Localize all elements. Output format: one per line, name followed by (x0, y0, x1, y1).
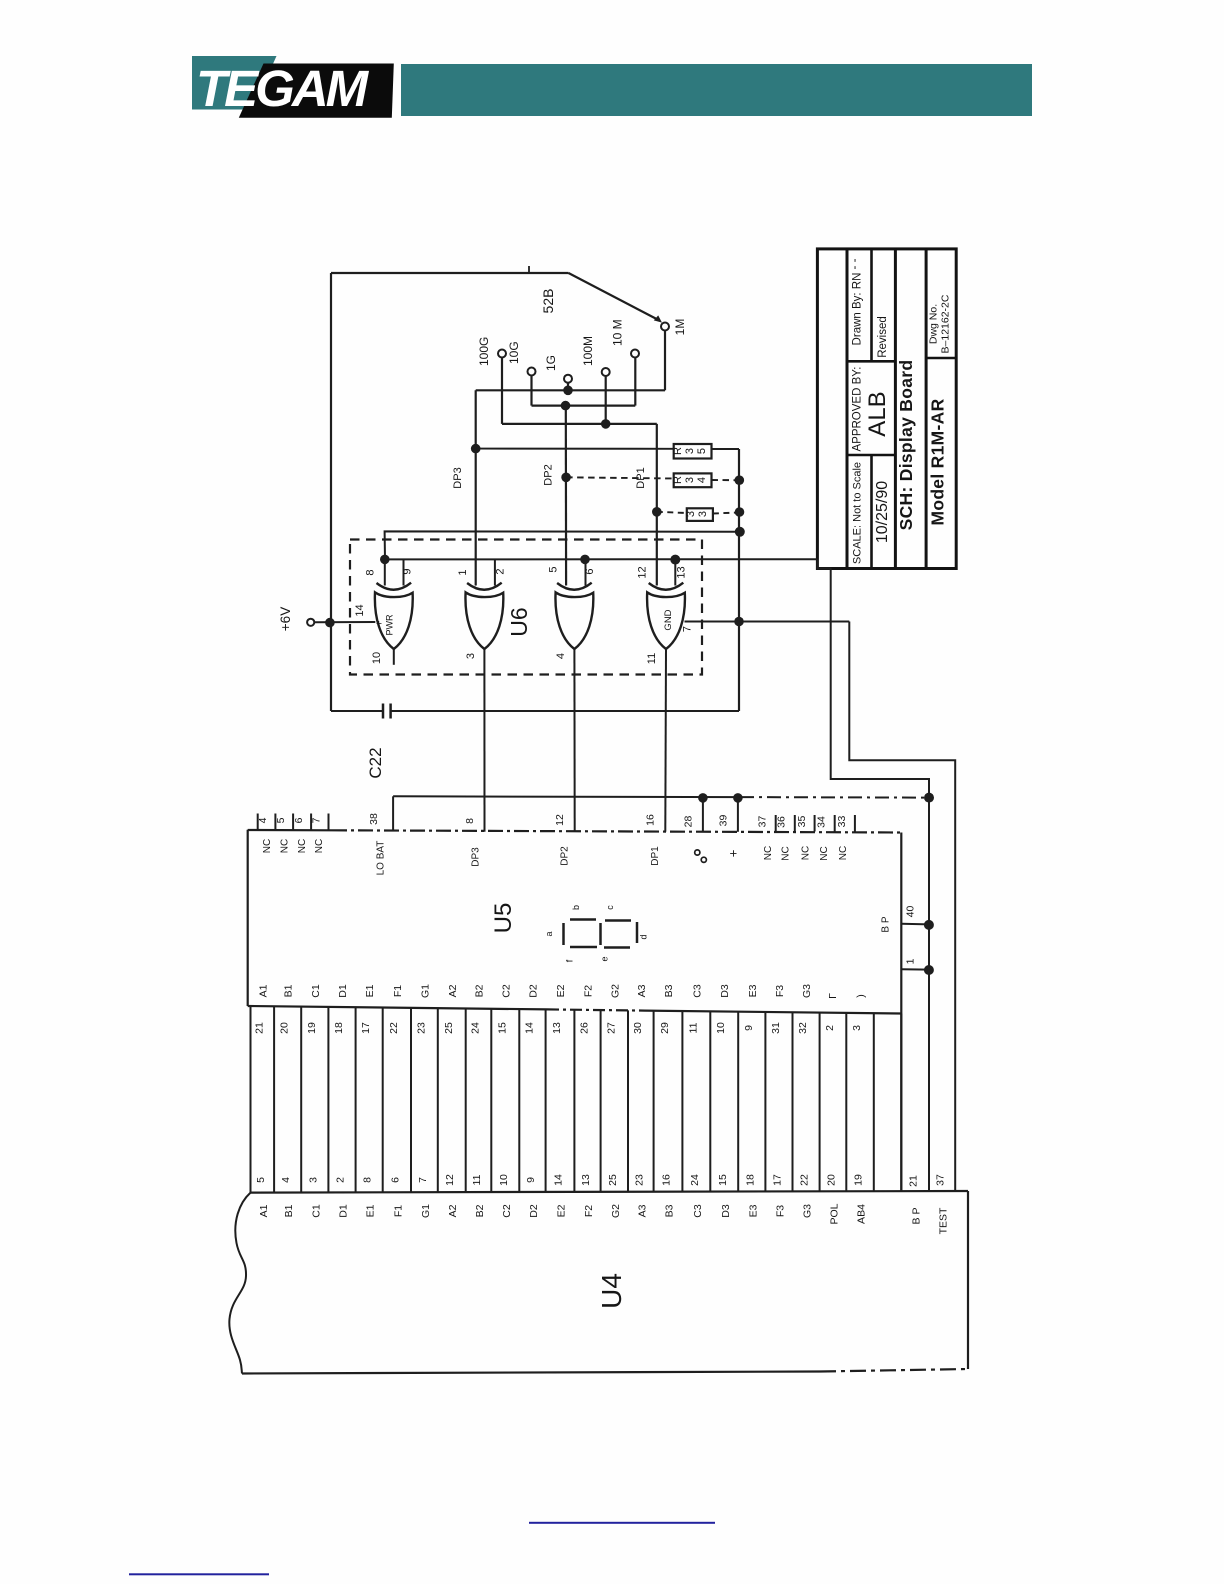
svg-text:A3: A3 (636, 984, 648, 997)
svg-text:3: 3 (684, 477, 696, 483)
U5 pin 1 BP stub (901, 958, 934, 975)
svg-text:4: 4 (257, 817, 269, 823)
svg-text:20: 20 (279, 1022, 291, 1034)
svg-text:DP3: DP3 (471, 847, 482, 867)
wire: top horizontal to switch (331, 266, 569, 273)
svg-text:16: 16 (661, 1174, 673, 1186)
wire: +6V to rail and pin 14 (314, 604, 375, 627)
svg-text:8: 8 (362, 1177, 374, 1183)
svg-text:ALB: ALB (864, 391, 891, 436)
svg-text:C3: C3 (692, 1204, 704, 1218)
svg-text:D2: D2 (528, 1204, 540, 1218)
svg-text:26: 26 (579, 1022, 591, 1034)
node DP2 on net Q (561, 401, 571, 411)
svg-text:B3: B3 (663, 984, 675, 997)
wire: GND pin7 run to U4 TEST (849, 622, 955, 1193)
IC U5 outline (248, 830, 902, 1192)
svg-text:AB4: AB4 (856, 1204, 868, 1224)
svg-text:A1: A1 (258, 1204, 270, 1217)
svg-text:GND: GND (663, 609, 674, 630)
svg-text:14: 14 (524, 1022, 536, 1034)
title text: Revised (877, 316, 889, 358)
svg-text:G2: G2 (609, 984, 621, 998)
U5 pin 12 DP2 (554, 814, 571, 866)
svg-text:F1: F1 (392, 1205, 404, 1217)
svg-text:12: 12 (444, 1174, 456, 1186)
wire: 1M drop to net P (664, 331, 666, 391)
wire: pin 8 input (365, 555, 390, 586)
wire: DP1 vertical (635, 424, 662, 586)
svg-text:38: 38 (368, 813, 380, 825)
U5 pin 38 LO BAT (368, 796, 393, 875)
svg-text:25: 25 (607, 1174, 619, 1186)
op-amp gate U6C (555, 583, 593, 649)
svg-text:E1: E1 (365, 1204, 377, 1217)
U4 BP/TEST channel walls (900, 1014, 902, 1193)
U4 torn left edge (229, 1193, 250, 1374)
svg-text:B1: B1 (283, 1204, 295, 1217)
svg-text:5: 5 (255, 1177, 267, 1183)
resistor R35 (476, 444, 739, 459)
wire: net P horizontal (1M,1G,DP3) (476, 389, 665, 391)
terminal 10M (611, 319, 640, 357)
svg-text:B P: B P (911, 1208, 923, 1225)
svg-text:SCALE: Not to Scale: SCALE: Not to Scale (852, 462, 864, 564)
svg-text:R: R (672, 476, 684, 484)
terminal 100M (581, 336, 610, 376)
svg-text:DP2: DP2 (560, 846, 571, 866)
svg-text:APPROVED BY:: APPROVED BY: (852, 366, 864, 451)
U4 side pin numbers (255, 1174, 865, 1186)
svg-text:9: 9 (402, 568, 414, 574)
wire: net R horizontal (100G,100M,DP1) (502, 423, 657, 425)
svg-text:25: 25 (443, 1022, 455, 1034)
wire: DP2 vertical (543, 406, 571, 586)
svg-text:LO BAT: LO BAT (376, 841, 387, 876)
svg-text:6: 6 (293, 817, 305, 823)
svg-text:F1: F1 (392, 985, 404, 997)
svg-text:17: 17 (360, 1022, 372, 1034)
op-amp gate U6B (465, 583, 503, 649)
svg-text:6: 6 (389, 1177, 401, 1183)
svg-text:35: 35 (796, 816, 808, 828)
svg-text:NC: NC (262, 839, 273, 853)
svg-text:E1: E1 (364, 984, 376, 997)
svg-text:Drawn By: RN: Drawn By: RN (852, 273, 864, 346)
U5 pin 16 DP1 (645, 814, 662, 866)
svg-text:10: 10 (715, 1022, 727, 1034)
U5 bottom side labels (257, 984, 813, 998)
U4 pin 21 BP (908, 1175, 923, 1224)
svg-text:24: 24 (689, 1174, 701, 1186)
svg-text:G1: G1 (419, 984, 431, 998)
svg-text:PWR: PWR (385, 614, 395, 635)
svg-text:G1: G1 (420, 1204, 432, 1218)
wire: pin 6 input (580, 555, 596, 586)
svg-text:3: 3 (465, 653, 477, 659)
svg-text:e: e (600, 956, 610, 961)
TEGAM logo teal parallelogram (192, 56, 277, 110)
svg-text:27: 27 (605, 1022, 617, 1034)
svg-text:37: 37 (757, 816, 769, 828)
IC U4 outline (242, 1191, 968, 1374)
wire: 10G drop (530, 376, 532, 406)
svg-text:B1: B1 (283, 984, 295, 997)
svg-text:D3: D3 (719, 984, 731, 998)
svg-text:3: 3 (697, 511, 709, 517)
wire: 1G drop (563, 383, 573, 395)
terminal 1G (544, 355, 572, 383)
label U4 (596, 1273, 627, 1309)
svg-text:100G: 100G (477, 337, 491, 366)
svg-text:100M: 100M (581, 336, 595, 366)
svg-text:B2: B2 (474, 1204, 486, 1217)
terminal 10G (507, 341, 536, 375)
svg-text:U4: U4 (596, 1273, 627, 1309)
wire: pin 7 GND output to right (682, 622, 850, 633)
svg-text:R: R (672, 447, 684, 455)
svg-text:19: 19 (853, 1174, 865, 1186)
svg-text:7: 7 (682, 626, 694, 632)
svg-text:Dwg No.: Dwg No. (928, 304, 940, 344)
wire: 100G drop (501, 358, 503, 424)
svg-text:28: 28 (683, 816, 695, 828)
svg-text:5: 5 (548, 566, 560, 572)
svg-text:TEST: TEST (938, 1207, 950, 1234)
op-amp gate U6D GND (647, 583, 685, 649)
svg-text:Γ: Γ (827, 993, 839, 999)
svg-text:1M: 1M (673, 319, 687, 336)
svg-text:11: 11 (687, 1022, 699, 1033)
svg-text:C3: C3 (691, 984, 703, 998)
svg-text:34: 34 (816, 816, 828, 828)
FOOTER (529, 1522, 715, 1524)
svg-text:4: 4 (555, 653, 567, 659)
svg-text:24: 24 (470, 1022, 482, 1034)
svg-text:5: 5 (275, 817, 287, 823)
wire: +6V left rail (330, 273, 332, 711)
svg-text:A2: A2 (447, 984, 459, 997)
svg-text:3: 3 (307, 1177, 319, 1183)
wire: DP3 vertical (452, 390, 481, 585)
U6 dashed boundary box (350, 540, 702, 675)
title text: Drawn By (849, 258, 864, 345)
svg-text:22: 22 (388, 1022, 400, 1034)
svg-text:- -: - - (849, 258, 861, 269)
svg-text:+: + (726, 850, 741, 858)
svg-text:20: 20 (826, 1174, 838, 1186)
svg-text:10: 10 (371, 652, 383, 664)
svg-text:A2: A2 (447, 1204, 459, 1217)
wire: pin 10 output stub (371, 649, 394, 665)
wire: pin 1 input (DP3) (457, 569, 476, 585)
svg-text:B2: B2 (474, 984, 486, 997)
svg-text:D1: D1 (337, 984, 349, 998)
svg-text:30: 30 (632, 1022, 644, 1034)
svg-text:C2: C2 (500, 984, 512, 998)
svg-text:E2: E2 (555, 984, 567, 997)
wire: pin 5 input (DP2) (548, 566, 567, 585)
wire: pin 3 output to U5 pin 8 (465, 649, 485, 832)
svg-text:DP3: DP3 (452, 467, 464, 488)
svg-text:F2: F2 (583, 985, 595, 997)
svg-text:NC: NC (763, 846, 774, 860)
switch 52B wiper diagonal with arrowhead (569, 273, 663, 323)
svg-text:NC: NC (280, 839, 291, 853)
svg-text:10: 10 (498, 1174, 510, 1186)
svg-text:18: 18 (333, 1022, 345, 1034)
svg-text:TEGAM: TEGAM (196, 60, 370, 117)
svg-text:): ) (855, 994, 867, 998)
svg-text:NC: NC (819, 846, 830, 860)
U5 side pin numbers (253, 1022, 863, 1034)
label U6 (506, 607, 532, 636)
terminal 100G (477, 337, 506, 366)
svg-text:2: 2 (495, 568, 507, 574)
svg-text:12: 12 (637, 566, 649, 578)
resistor 33 (657, 508, 740, 521)
svg-text:C1: C1 (310, 984, 322, 998)
svg-text:29: 29 (659, 1022, 671, 1034)
svg-text:7: 7 (311, 817, 323, 823)
svg-text:8: 8 (464, 818, 476, 824)
wire: pin 4 output to U5 pin 12 (555, 649, 575, 832)
svg-text:17: 17 (772, 1174, 784, 1186)
svg-text:c: c (605, 905, 615, 910)
svg-text:U6: U6 (506, 607, 532, 636)
title text: APPROVED BY ALB (852, 366, 892, 451)
svg-text:C1: C1 (310, 1204, 322, 1218)
svg-text:A1: A1 (257, 984, 269, 997)
svg-text:39: 39 (718, 815, 730, 827)
svg-text:5: 5 (696, 448, 708, 454)
svg-text:16: 16 (645, 814, 657, 826)
svg-text:11: 11 (471, 1174, 483, 1185)
title text: Dwg No (928, 294, 952, 353)
label BP inside U5 (881, 916, 892, 932)
U5 pins 4-7 NC stubs (258, 814, 329, 831)
svg-text:F2: F2 (583, 1205, 595, 1217)
svg-text:4: 4 (280, 1177, 292, 1183)
svg-text:1: 1 (457, 569, 469, 575)
TEGAM logo black parallelogram (239, 64, 394, 118)
svg-text:SCH: Display Board: SCH: Display Board (896, 360, 916, 531)
svg-text:D3: D3 (720, 1204, 732, 1218)
svg-text:6: 6 (584, 568, 596, 574)
svg-text:A3: A3 (636, 1204, 648, 1217)
wire: pin 12 input (DP1) (637, 566, 649, 578)
svg-text:DP1: DP1 (650, 846, 661, 866)
svg-text:13: 13 (551, 1022, 563, 1034)
svg-text:11: 11 (646, 653, 658, 664)
svg-text:15: 15 (717, 1174, 729, 1186)
terminal 1M (661, 319, 687, 336)
TEGAM logo text (196, 60, 370, 117)
svg-text:E3: E3 (747, 984, 759, 997)
wire: 100M drop (601, 376, 611, 429)
svg-text:13: 13 (676, 566, 688, 578)
svg-text:31: 31 (770, 1022, 782, 1034)
svg-text:32: 32 (797, 1022, 809, 1034)
svg-text:NC: NC (801, 846, 812, 860)
svg-text:Revised: Revised (877, 316, 889, 358)
svg-text:21: 21 (908, 1175, 920, 1187)
label U5 (490, 903, 517, 934)
svg-text:9: 9 (525, 1177, 537, 1183)
U5 extra bottom marks (827, 993, 867, 999)
7-segment icon (564, 920, 638, 948)
title text: Model R1M-AR (928, 398, 948, 525)
svg-text:NC: NC (297, 839, 308, 853)
svg-text:23: 23 (633, 1174, 645, 1186)
svg-text:10G: 10G (507, 341, 521, 364)
svg-text:b: b (571, 905, 581, 910)
U5 pin 40 BP stub (901, 906, 934, 930)
svg-text:52B: 52B (540, 289, 556, 314)
svg-text:23: 23 (415, 1022, 427, 1034)
svg-text:9: 9 (743, 1025, 755, 1031)
svg-text:2: 2 (335, 1177, 347, 1183)
svg-text:37: 37 (935, 1174, 947, 1186)
svg-text:C2: C2 (501, 1204, 513, 1218)
svg-text:DP2: DP2 (543, 464, 555, 485)
svg-text:10 M: 10 M (611, 319, 625, 346)
svg-text:D2: D2 (528, 984, 540, 998)
svg-text:B3: B3 (664, 1204, 676, 1217)
svg-text:1: 1 (905, 958, 917, 964)
svg-text:40: 40 (905, 906, 917, 918)
TITLE_BLOCK (817, 249, 956, 569)
U5-U4 interconnect channel walls (251, 1006, 874, 1193)
wire: net Q horizontal (10G,10M,DP2) (532, 405, 636, 407)
U5 pin 8 DP3 (464, 818, 482, 867)
svg-text:G2: G2 (610, 1204, 622, 1218)
svg-text:d: d (639, 934, 649, 939)
svg-text:15: 15 (496, 1022, 508, 1034)
svg-text:3: 3 (684, 448, 696, 454)
svg-text:G3: G3 (802, 1204, 814, 1218)
svg-text:3: 3 (685, 511, 697, 517)
svg-text:D1: D1 (338, 1204, 350, 1218)
svg-text:B–12162-2C: B–12162-2C (940, 294, 952, 353)
svg-text:12: 12 (554, 814, 566, 826)
svg-text:+6V: +6V (278, 607, 293, 631)
label 52B (540, 289, 556, 314)
svg-text:14: 14 (553, 1174, 565, 1186)
wire: BP riser along title block to pin 40/1 and U4 pin 21 (817, 559, 934, 1192)
svg-text:1G: 1G (544, 355, 558, 371)
wire: 10M drop (634, 358, 636, 406)
svg-text:18: 18 (744, 1174, 756, 1186)
capacitor C22 (331, 704, 739, 779)
svg-text:G3: G3 (801, 984, 813, 998)
resistor R34 (566, 473, 739, 487)
svg-text:U5: U5 (490, 903, 517, 934)
wire: LO BAT net horizontal (393, 793, 929, 803)
svg-text:14: 14 (354, 604, 366, 616)
svg-text:13: 13 (580, 1174, 592, 1186)
svg-text:21: 21 (253, 1022, 265, 1034)
wire: pin 11 output to U5 pin 16 (646, 649, 666, 832)
svg-text:22: 22 (799, 1174, 811, 1186)
wire: pin 2 input (495, 559, 507, 585)
svg-text:F3: F3 (775, 1205, 787, 1217)
svg-text:19: 19 (306, 1022, 318, 1034)
wire: BP net lower run pins 9,2,6,13 (385, 558, 818, 560)
svg-text:4: 4 (696, 477, 708, 483)
U5 pin 39 plus (718, 798, 741, 857)
terminal +6V (278, 607, 314, 631)
svg-text:POL: POL (829, 1203, 841, 1224)
title text: SCH Display Board (896, 360, 916, 531)
U5 pin 28 degree (683, 798, 707, 863)
wire: pin 9 input (402, 559, 414, 585)
svg-text:2: 2 (824, 1025, 836, 1031)
title text: SCALE date (852, 462, 892, 564)
U4 labels (258, 1203, 868, 1224)
wire: BP net upper run to bus (385, 531, 740, 559)
svg-text:10/25/90: 10/25/90 (874, 481, 891, 543)
svg-text:Model R1M-AR: Model R1M-AR (928, 398, 948, 525)
U4 pin 37 TEST (935, 1174, 950, 1234)
svg-text:E2: E2 (556, 1204, 568, 1217)
svg-text:C22: C22 (366, 747, 385, 778)
svg-text:33: 33 (836, 816, 848, 828)
wire: resistor bus vertical (734, 449, 745, 711)
svg-text:a: a (544, 931, 554, 936)
teal banner bar (401, 64, 1032, 116)
svg-text:8: 8 (365, 569, 377, 575)
op-amp gate U6A PWR (375, 583, 413, 649)
svg-text:NC: NC (314, 839, 325, 853)
svg-text:B P: B P (881, 916, 892, 932)
svg-text:7: 7 (417, 1177, 429, 1183)
svg-text:F3: F3 (774, 985, 786, 997)
svg-text:E3: E3 (747, 1204, 759, 1217)
svg-text:36: 36 (776, 816, 788, 828)
svg-text:NC: NC (838, 846, 849, 860)
svg-text:NC: NC (781, 846, 792, 860)
U5 pins 37-33 NC stubs (776, 815, 855, 832)
wire: pin 13 input (670, 555, 687, 586)
svg-text:3: 3 (851, 1025, 863, 1031)
